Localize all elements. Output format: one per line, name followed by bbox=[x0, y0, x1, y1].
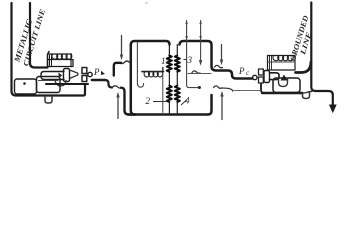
svg-text:P: P bbox=[93, 67, 100, 77]
svg-text:3: 3 bbox=[187, 55, 193, 65]
svg-text:1: 1 bbox=[161, 56, 166, 66]
svg-text:P: P bbox=[238, 66, 245, 76]
svg-text:2: 2 bbox=[146, 96, 151, 106]
